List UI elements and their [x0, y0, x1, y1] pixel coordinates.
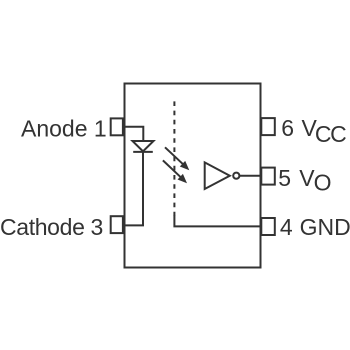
svg-text:4: 4	[280, 214, 293, 240]
svg-text:GND: GND	[300, 214, 350, 240]
svg-text:6: 6	[281, 115, 294, 141]
svg-text:O: O	[314, 169, 332, 195]
svg-text:5: 5	[278, 165, 291, 191]
svg-text:Cathode 3: Cathode 3	[0, 214, 103, 240]
svg-text:Anode 1: Anode 1	[21, 115, 107, 141]
svg-text:CC: CC	[315, 121, 346, 147]
